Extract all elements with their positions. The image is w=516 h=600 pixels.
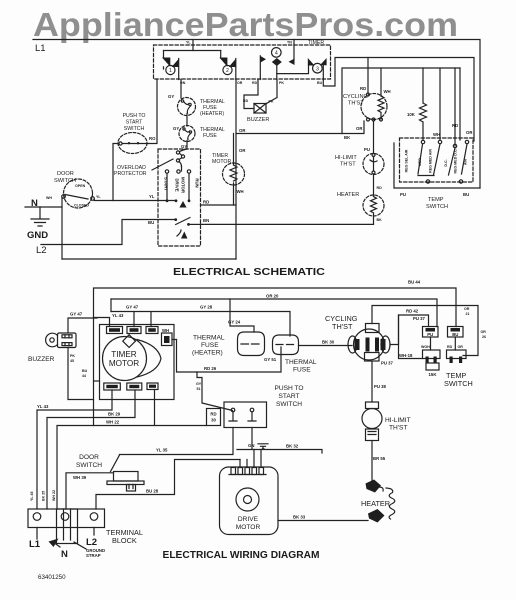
timer cam diamond (123, 335, 136, 348)
svg-text:SWITCH: SWITCH (76, 462, 102, 469)
heater connector upper (366, 480, 382, 493)
timer dashed box (154, 45, 331, 79)
hi-limit thermostat (wiring) (366, 402, 379, 409)
heater coil (386, 488, 395, 519)
wire BU28 to drive motor (96, 460, 240, 510)
thermal fuse F2 (179, 126, 195, 142)
wire console second rail (342, 68, 460, 134)
wire heater return to motor switch (201, 223, 374, 225)
ground (31, 207, 49, 226)
motor dashed box M1 (158, 149, 201, 246)
wire BU44 outer loop (94, 288, 457, 426)
timer bottom terminal B2 (127, 383, 142, 390)
svg-text:BLOCK: BLOCK (112, 536, 137, 545)
wire WH39 door to N (66, 473, 114, 509)
wire GY47 GY28 run (111, 312, 290, 337)
temp switch contact arms (418, 144, 467, 175)
wire RD to temp switch (459, 68, 461, 140)
timer motor rotor (wiring) (103, 337, 147, 381)
wire YL35 door to PTS (120, 428, 234, 455)
timer box (wiring) (100, 325, 175, 400)
timer terminal T3 (146, 327, 158, 334)
svg-text:L1: L1 (29, 539, 41, 550)
timer bottom terminal B3 (147, 383, 158, 390)
wire BU cam3 to console rail (323, 58, 474, 142)
wire YL43 timer terminal 1 (94, 318, 110, 327)
wire RD26 timer to fuse (177, 340, 282, 373)
temp switch PU terminal (423, 327, 439, 338)
timer bottom terminal B1 (104, 383, 121, 390)
temp switch terminals (421, 140, 424, 143)
timer terminal T1 (107, 327, 123, 334)
door switch (wiring) (111, 455, 120, 472)
RD30 block (207, 409, 221, 426)
timer WH terminal (162, 333, 173, 346)
svg-text:STRAP: STRAP (86, 553, 101, 558)
timer cam switch 2 (220, 51, 222, 59)
overload protector OL (176, 151, 179, 154)
wire bottom rail N return (62, 258, 236, 260)
wire N to door switch (61, 198, 63, 259)
wire RD42 cycling to temp BU (372, 306, 478, 356)
timer cam switch 3 (308, 58, 315, 66)
thermal fuse heater blob (wiring) (238, 332, 265, 356)
buzzer BZ (wiring) (46, 333, 58, 347)
svg-text:N: N (61, 549, 68, 560)
svg-text:L2: L2 (86, 537, 97, 548)
wire hi-limit to heater (373, 174, 375, 196)
thermal fuse (heater) F1 (178, 98, 196, 116)
wire BK33 motor to heater (278, 520, 368, 522)
wire OR to cycling lower contact (236, 121, 364, 134)
wire GY47 buzzer to timer (68, 318, 97, 333)
wire cam4 to cam3 link (277, 66, 309, 74)
wire YL43 left drop (37, 390, 112, 509)
motor centrifugal switch (174, 218, 177, 221)
svg-text:BU 28: BU 28 (146, 489, 159, 494)
wire BU44 into timer (94, 380, 100, 382)
timer terminal T2 (127, 327, 141, 334)
svg-text:WH 39: WH 39 (73, 475, 87, 480)
resistor 15K (wiring) (426, 363, 439, 370)
ground strap arrow (49, 539, 59, 548)
wire OR20 loop (111, 299, 437, 327)
wire door switch to motor (94, 200, 176, 201)
wires into drive motor comb (240, 450, 261, 468)
wire GN ground stub (252, 428, 268, 450)
wire WH18 cycling to temp switch (399, 315, 423, 359)
svg-text:WH 22: WH 22 (52, 490, 56, 501)
svg-text:63401250: 63401250 (38, 574, 66, 581)
wire timer internal bus (164, 50, 221, 52)
wire RD motor to OR drop (201, 204, 237, 206)
wire between fuses (186, 114, 188, 127)
terminal block TB (28, 509, 105, 528)
wire cam1 left contact down to push-to-start (146, 67, 164, 144)
wire L1 top rail (33, 40, 480, 189)
wire BK29 left drop (47, 390, 135, 509)
buzzer (schematic) (244, 80, 258, 109)
heater connector lower (368, 509, 385, 523)
wire PU cycling to hi-limit (373, 121, 375, 154)
drive motor DM (220, 467, 279, 535)
svg-text:YL 45: YL 45 (30, 491, 34, 501)
wire BK32 (237, 450, 322, 454)
wire OR cam2 long drop to bottom rail (235, 80, 237, 260)
svg-text:DOOR: DOOR (79, 454, 99, 461)
wire L2 to motor BU (41, 220, 176, 245)
push to start switch PTS (118, 133, 147, 154)
svg-text:BK 25: BK 25 (42, 491, 46, 501)
timer motor coil (223, 163, 245, 185)
wire GY24 branch (111, 299, 254, 332)
timer cam switch 1 (163, 51, 165, 59)
motor internal start/run windings (181, 167, 183, 172)
leader overload (152, 159, 173, 170)
wire WH to temp switch (439, 68, 441, 140)
temp switch BU terminal (448, 327, 464, 338)
temp switch dashed box (400, 138, 474, 182)
svg-text:ELECTRICAL WIRING DIAGRAM: ELECTRICAL WIRING DIAGRAM (163, 549, 320, 561)
wire BR55 hi-limit to heater (371, 441, 373, 482)
wire PTS to motor start (113, 144, 119, 201)
wire PU38 cycling to hi-limit (371, 361, 373, 402)
wire PU37 to temp PU (390, 315, 429, 345)
svg-text:DRIVE: DRIVE (238, 516, 259, 523)
wire YL feed to timer (192, 40, 194, 51)
push to start switch box (wiring) (224, 402, 267, 428)
wire heater return into motor (189, 223, 201, 225)
wire fuse to overload protector (186, 141, 188, 150)
timer cam switch 4 (272, 48, 282, 58)
wire TN feed to timer cam 4 (293, 40, 295, 61)
wire BK30 to cycling (299, 345, 353, 347)
resistor 10K (420, 68, 427, 140)
wire GN to thermal fuse heater (180, 80, 182, 99)
wire buzzer bottom down (68, 348, 94, 400)
svg-text:MOTOR: MOTOR (236, 524, 261, 531)
wire WH22 run (57, 390, 207, 510)
thermal fuse blob 2 (wiring) (273, 335, 299, 355)
temp switch outer box (394, 143, 480, 188)
door switch DS (64, 179, 93, 208)
